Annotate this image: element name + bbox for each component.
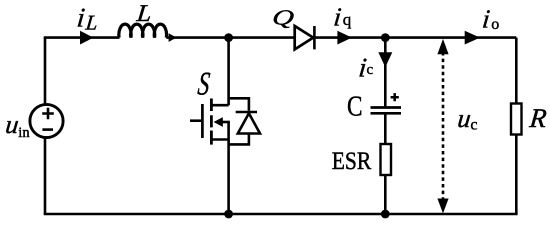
voltage source u_in circle (30, 104, 63, 137)
wire capacitor branch vertical upper (384, 38, 387, 107)
transistor S gate lead (190, 119, 201, 122)
voltage marker u_c top arrowhead (437, 39, 448, 54)
transistor S gate bar (201, 104, 204, 138)
wire MOSFET drain vertical (227, 38, 230, 106)
label u_c (456, 104, 477, 134)
label i_o (481, 5, 499, 34)
wire capacitor to ESR (384, 113, 387, 144)
svg-text:i: i (332, 3, 342, 32)
label i_L (76, 3, 99, 35)
body diode triangle (238, 113, 260, 133)
voltage marker u_c bottom arrowhead (437, 199, 448, 214)
svg-text:L: L (84, 10, 99, 34)
wire body diode anode branch (229, 134, 249, 145)
transistor S channel top segment (210, 99, 213, 112)
svg-text:ESR: ESR (332, 148, 372, 175)
transistor S drain stub (211, 104, 228, 107)
transistor S body arrowhead (214, 117, 223, 127)
label u_in (4, 110, 30, 141)
svg-text:L: L (135, 1, 153, 27)
wire body diode top branch (229, 98, 249, 111)
diode Q triangle (295, 26, 314, 49)
node junction dot bottom MOSFET (224, 210, 233, 219)
transistor S body arrow shaft (220, 121, 230, 124)
capacitor C bottom plate (371, 112, 402, 115)
inductor end arrowhead (169, 33, 177, 42)
wire bottom rail (44, 213, 518, 216)
capacitor C top plate (371, 106, 402, 109)
svg-text:q: q (343, 10, 352, 29)
wire ESR to bottom rail (384, 175, 387, 214)
current arrow i_q (337, 31, 352, 45)
voltage marker u_c dashed line (442, 52, 445, 200)
wire left vertical bottom (source to bottom rail) (44, 137, 47, 214)
label i_c (357, 53, 373, 83)
current arrow i_c (378, 52, 392, 67)
voltage source plus sign (42, 108, 54, 120)
svg-text:R: R (527, 103, 548, 133)
diode Q cathode bar (313, 26, 316, 49)
resistor ESR box (381, 144, 392, 175)
resistor R box (511, 104, 522, 135)
svg-text:Q: Q (271, 6, 296, 30)
voltage source minus sign (42, 128, 53, 131)
wire MOSFET source vertical (227, 122, 230, 214)
wire right vertical upper (to R) (515, 38, 518, 104)
node junction dot bottom capacitor (381, 210, 390, 219)
wire top rail left segment (44, 36, 120, 39)
svg-text:o: o (491, 16, 499, 33)
transistor S channel middle segment (210, 115, 213, 127)
node junction dot top capacitor (381, 33, 390, 42)
wire left vertical top (source to top rail) (44, 38, 47, 105)
inductor L (119, 24, 167, 37)
node junction dot top left (224, 33, 233, 42)
wire top rail right segment (316, 36, 517, 39)
svg-text:S: S (196, 67, 211, 103)
transistor S channel bottom segment (210, 131, 213, 145)
svg-text:i: i (481, 5, 491, 34)
body diode cathode bar (236, 111, 257, 114)
label i_q (332, 3, 351, 32)
svg-text:c: c (470, 117, 477, 134)
current arrow i_o (465, 31, 480, 45)
svg-text:C: C (347, 90, 363, 122)
wire right vertical lower (R to bottom rail) (515, 135, 518, 215)
svg-text:c: c (367, 62, 374, 78)
current arrow i_L (80, 31, 94, 45)
transistor S source stub (211, 138, 228, 141)
capacitor plus sign (391, 93, 399, 101)
svg-text:in: in (18, 125, 30, 141)
wire top rail middle segment (166, 36, 294, 39)
